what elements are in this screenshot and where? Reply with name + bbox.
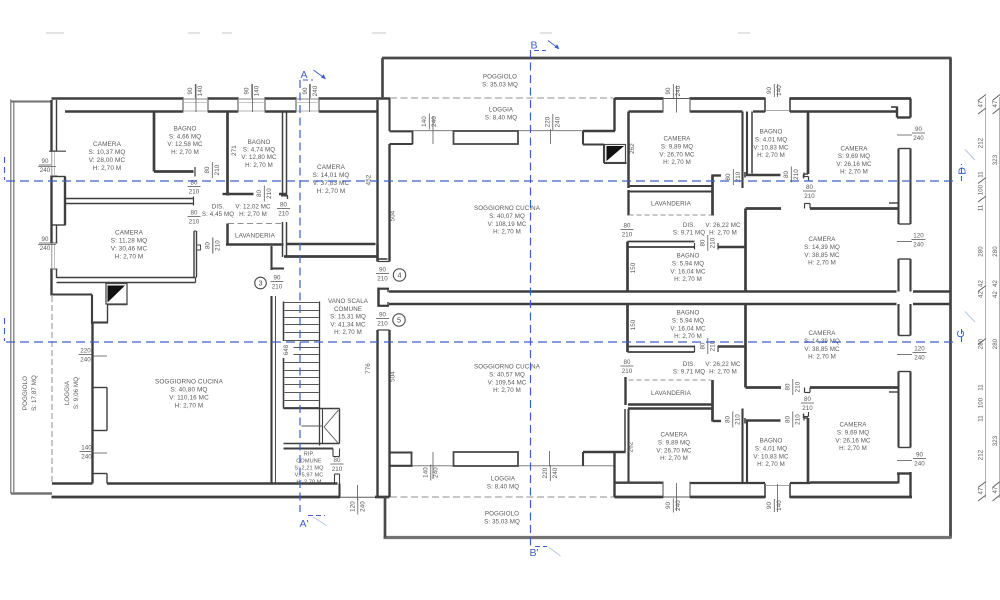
dimension chain lines [985, 97, 987, 498]
stair hall top wall [284, 255, 378, 258]
window bagno 4,01 top [764, 98, 766, 113]
right building west edge top [381, 58, 384, 99]
svg-text:CAMERA: CAMERA [93, 141, 122, 148]
bagno 4,01 bottom north wall [746, 419, 781, 422]
right building top wall [382, 57, 952, 60]
svg-text:V: 28,00 MC: V: 28,00 MC [89, 157, 126, 164]
camera 14,01 south wall [287, 243, 376, 246]
svg-text:V: 12,02 MC: V: 12,02 MC [235, 204, 271, 211]
svg-text:140: 140 [421, 116, 428, 127]
svg-text:BAGNO: BAGNO [248, 139, 271, 146]
svg-text:H: 2,70 M: H: 2,70 M [334, 329, 362, 336]
north inner wall [629, 110, 664, 112]
svg-text:LAVANDERIA: LAVANDERIA [235, 233, 276, 240]
bagno 5,94 bottom door caps [694, 346, 696, 353]
door 3 circle and dimension [255, 277, 267, 289]
camera 14,39 top west wall [744, 209, 747, 292]
svg-text:80: 80 [784, 416, 791, 424]
stair landing [284, 408, 340, 410]
svg-text:S: 40,57 MQ: S: 40,57 MQ [489, 371, 525, 378]
svg-text:CAMERA: CAMERA [808, 330, 836, 337]
west bay window soggiorno [93, 387, 108, 389]
svg-text:80: 80 [623, 359, 631, 366]
svg-text:140: 140 [776, 85, 783, 96]
svg-text:11: 11 [978, 384, 985, 391]
svg-text:262: 262 [628, 441, 635, 452]
svg-text:11: 11 [978, 171, 985, 178]
soggiorno west wall [91, 323, 93, 484]
svg-text:H: 2,70 M: H: 2,70 M [660, 455, 688, 462]
svg-text:90: 90 [41, 158, 49, 165]
svg-text:210: 210 [622, 368, 633, 375]
svg-text:V: 30,46 MC: V: 30,46 MC [111, 246, 148, 253]
right dimension ticks [978, 95, 986, 101]
svg-text:90: 90 [665, 87, 672, 95]
svg-text:V: 12,80 MC: V: 12,80 MC [241, 154, 277, 161]
svg-text:S: 9,69 MQ: S: 9,69 MQ [837, 429, 869, 436]
hall north wall bottom apartment [746, 386, 782, 389]
svg-text:120: 120 [914, 346, 925, 353]
camera 14,01 west wall [282, 112, 284, 196]
svg-text:BAGNO: BAGNO [677, 253, 700, 260]
svg-text:210: 210 [802, 405, 813, 412]
svg-text:S: 5,94 MQ: S: 5,94 MQ [672, 317, 704, 324]
svg-text:240: 240 [80, 357, 91, 364]
svg-text:H: 2,70 M: H: 2,70 M [663, 159, 691, 166]
svg-text:210: 210 [622, 232, 633, 239]
svg-text:V: 26,70 MC: V: 26,70 MC [656, 447, 692, 454]
svg-text:V: 26,22 MC: V: 26,22 MC [705, 361, 741, 368]
svg-text:V: 16,04 MC: V: 16,04 MC [670, 268, 706, 275]
svg-text:240: 240 [433, 467, 440, 478]
window W1 bagno 4,66 [182, 97, 184, 113]
left building west wall outer [50, 100, 52, 151]
stair dim 648 [283, 341, 294, 358]
svg-text:V: 10,83 MC: V: 10,83 MC [753, 144, 789, 151]
loggia bottom boundary [390, 451, 413, 453]
svg-text:42: 42 [992, 280, 999, 287]
svg-text:H: 2,70 M: H: 2,70 M [757, 152, 785, 159]
svg-text:H: 2,70 M: H: 2,70 M [115, 254, 144, 261]
svg-text:S: 15,31 MQ: S: 15,31 MQ [330, 314, 366, 321]
bagno 4,01 top door jamb [803, 173, 805, 177]
svg-text:S: 9,71 MQ: S: 9,71 MQ [673, 368, 705, 375]
svg-text:47: 47 [992, 100, 999, 107]
svg-text:H: 2,70 M: H: 2,70 M [808, 354, 836, 361]
svg-text:H: 2,70 M: H: 2,70 M [709, 229, 737, 236]
svg-text:140: 140 [776, 500, 783, 511]
right building mid wall [389, 290, 897, 292]
camera 9,89 bottom south wall [615, 482, 664, 484]
bagno 5,94 top walls [628, 241, 695, 243]
west door bump bottom [93, 473, 108, 475]
svg-text:210: 210 [278, 211, 289, 218]
svg-text:240: 240 [431, 116, 438, 127]
svg-text:240: 240 [40, 245, 51, 252]
svg-text:H: 2,70 M: H: 2,70 M [757, 461, 785, 468]
stairs [283, 302, 285, 409]
svg-text:H: 2,70 M: H: 2,70 M [808, 260, 836, 267]
svg-text:BAGNO: BAGNO [760, 129, 783, 136]
svg-text:V: 26,22 MC: V: 26,22 MC [705, 222, 741, 229]
bagno 4,66 south wall [154, 170, 194, 173]
poggiolo top dashed edge [390, 97, 613, 99]
svg-text:LOGGIA: LOGGIA [491, 476, 516, 483]
svg-text:210: 210 [377, 321, 388, 328]
svg-text:240: 240 [914, 355, 925, 362]
camera 9,89 top east wall [741, 112, 743, 189]
svg-text:80: 80 [783, 171, 790, 179]
wall corridor / camera 11,28 [193, 231, 195, 278]
right building bottom wall [384, 536, 952, 539]
svg-text:240: 240 [913, 242, 924, 249]
svg-text:LOGGIA: LOGGIA [64, 380, 71, 405]
svg-text:CAMERA: CAMERA [840, 146, 868, 153]
svg-text:240: 240 [360, 501, 367, 512]
svg-text:100: 100 [978, 184, 985, 195]
rip east wall [334, 474, 336, 484]
svg-text:90: 90 [665, 502, 672, 510]
svg-text:S: 2,21 MQ: S: 2,21 MQ [294, 466, 324, 472]
entry door box top-right apartment [605, 145, 626, 163]
section line D [6, 180, 956, 182]
svg-text:280: 280 [992, 338, 999, 349]
south outer wall right building [615, 496, 664, 499]
svg-text:240: 240 [914, 461, 925, 468]
svg-text:210: 210 [214, 164, 221, 175]
camera 9,89 top west wall [627, 112, 630, 189]
camera 9,69 bottom south inner wall [810, 481, 898, 483]
bagno 4,01 bottom door jamb [803, 417, 805, 421]
svg-text:648: 648 [284, 344, 290, 355]
svg-text:BAGNO: BAGNO [677, 310, 700, 317]
east window dim 90/240 top [897, 134, 912, 136]
left building south wall outer [52, 496, 341, 499]
svg-text:B': B' [529, 547, 538, 559]
svg-text:240: 240 [312, 85, 319, 96]
svg-text:A: A [300, 69, 307, 81]
svg-text:80: 80 [256, 190, 263, 198]
svg-text:POGGIOLO: POGGIOLO [483, 74, 517, 81]
svg-text:H: 2,70 M: H: 2,70 M [317, 188, 346, 195]
svg-text:90: 90 [187, 87, 194, 95]
svg-text:S: 17,87 MQ: S: 17,87 MQ [31, 375, 38, 411]
svg-text:H: 2,70 M: H: 2,70 M [175, 403, 204, 410]
svg-text:SOGGIORNO CUCINA: SOGGIORNO CUCINA [155, 379, 224, 386]
svg-text:240: 240 [675, 85, 682, 96]
svg-text:V: 110,16 MC: V: 110,16 MC [169, 395, 209, 402]
svg-text:210: 210 [215, 240, 222, 251]
left building top wall outer [52, 97, 184, 100]
camera 9,89 bottom east wall [741, 409, 743, 483]
svg-text:CAMERA: CAMERA [317, 164, 346, 171]
svg-text:240: 240 [675, 500, 682, 511]
lavanderia bottom-right box [629, 379, 712, 381]
svg-text:V: 10,83 MC: V: 10,83 MC [753, 453, 789, 460]
svg-text:42: 42 [978, 280, 985, 287]
svg-text:80: 80 [724, 416, 731, 424]
svg-text:RIP.: RIP. [304, 452, 315, 458]
faint top dimension marks [46, 32, 64, 34]
svg-text:S: 4,66 MQ: S: 4,66 MQ [169, 133, 201, 140]
left poggiolo bottom wall [11, 492, 52, 495]
svg-text:100: 100 [978, 397, 985, 408]
left poggiolo top wall [11, 101, 52, 103]
svg-text:V: 38,85 MC: V: 38,85 MC [804, 346, 840, 353]
svg-text:S: 4,45 MQ: S: 4,45 MQ [202, 211, 234, 218]
svg-text:S: 4,01 MQ: S: 4,01 MQ [755, 445, 787, 452]
svg-text:323: 323 [992, 435, 999, 446]
svg-text:80: 80 [806, 184, 814, 191]
svg-text:240: 240 [913, 135, 924, 142]
svg-text:V: 12,58 MC: V: 12,58 MC [167, 141, 203, 148]
stair hall west wall lower [270, 296, 272, 484]
svg-text:120: 120 [913, 233, 924, 240]
svg-text:140: 140 [197, 85, 204, 96]
svg-text:80: 80 [784, 383, 791, 391]
svg-text:210: 210 [793, 169, 800, 180]
svg-text:80: 80 [699, 342, 706, 350]
svg-text:776: 776 [365, 363, 372, 374]
svg-text:LOGGIA: LOGGIA [489, 107, 514, 114]
south-east notch [909, 472, 911, 497]
north-east notch [909, 99, 911, 118]
svg-text:210: 210 [189, 189, 200, 196]
svg-text:90: 90 [302, 87, 309, 95]
camera 9,89 bottom west wall [624, 409, 626, 452]
camera 9,69 bottom west wall [807, 418, 810, 484]
entry door box left apartment [106, 284, 127, 305]
svg-text:LAVANDERIA: LAVANDERIA [651, 201, 692, 208]
svg-text:S: 5,94 MQ: S: 5,94 MQ [672, 260, 704, 267]
right building east wall [949, 58, 952, 538]
svg-text:210: 210 [266, 188, 273, 199]
svg-text:271: 271 [231, 145, 238, 156]
svg-text:80: 80 [804, 396, 812, 403]
door camera 9,89 bottom [662, 482, 664, 499]
bagno 4,01 top west wall [746, 112, 748, 177]
svg-text:210: 210 [189, 219, 200, 226]
bagno 4,01 top south wall [746, 174, 781, 177]
svg-text:11: 11 [978, 204, 985, 211]
svg-text:240: 240 [81, 454, 92, 461]
svg-text:H: 2,70 M: H: 2,70 M [674, 333, 702, 340]
svg-text:3: 3 [258, 279, 262, 288]
svg-text:280: 280 [992, 246, 999, 257]
svg-text:DIS.: DIS. [683, 222, 696, 229]
svg-text:262: 262 [629, 143, 636, 154]
door camera 9,89 top [662, 97, 664, 113]
camera 9,89 top south wall / lavanderia top [629, 185, 714, 187]
svg-text:240: 240 [555, 116, 562, 127]
svg-text:DIS.: DIS. [683, 361, 696, 368]
svg-text:S: 4,74 MQ: S: 4,74 MQ [243, 147, 275, 154]
svg-text:210: 210 [795, 414, 802, 425]
svg-text:90: 90 [379, 312, 387, 319]
svg-text:CAMERA: CAMERA [839, 422, 867, 429]
svg-text:CAMERA: CAMERA [115, 230, 144, 237]
svg-text:90: 90 [41, 236, 49, 243]
svg-text:210: 210 [332, 466, 343, 473]
window W3 camera 14,01 [295, 97, 297, 113]
svg-text:CAMERA: CAMERA [808, 236, 836, 243]
svg-text:V: 108,19 MC: V: 108,19 MC [488, 221, 527, 228]
svg-text:LAVANDERIA: LAVANDERIA [651, 390, 692, 397]
svg-text:90: 90 [916, 452, 924, 459]
portal between doors 4 and 5 [377, 288, 380, 307]
svg-text:BAGNO: BAGNO [760, 438, 783, 445]
svg-text:H: 2,70 M: H: 2,70 M [493, 229, 521, 236]
section line C [6, 341, 956, 343]
entry alcove top-right apartment [613, 98, 615, 131]
east window dim 120/240 bottom [897, 354, 912, 356]
svg-text:212: 212 [978, 137, 985, 148]
right apartments north wall [615, 97, 664, 100]
section line A [299, 80, 301, 512]
svg-text:CAMERA: CAMERA [663, 136, 691, 143]
rip comune top wall [284, 447, 334, 449]
svg-text:V: 41,34 MC: V: 41,34 MC [330, 321, 366, 328]
svg-text:H: 2,70 M: H: 2,70 M [171, 149, 199, 156]
svg-text:V: 5,97 MC: V: 5,97 MC [295, 473, 324, 479]
right building west edge bottom [384, 497, 387, 538]
svg-text:S: 8,40 MQ: S: 8,40 MQ [487, 484, 519, 491]
svg-text:5: 5 [397, 316, 401, 325]
svg-text:S: 9,89 MQ: S: 9,89 MQ [661, 143, 693, 150]
svg-text:POGGIOLO: POGGIOLO [22, 376, 29, 410]
east window dim 120/240 top [897, 241, 912, 243]
svg-text:47: 47 [978, 100, 985, 107]
svg-text:S: 9,71 MQ: S: 9,71 MQ [673, 229, 705, 236]
svg-text:B: B [530, 40, 537, 52]
left building south wall inner [52, 482, 93, 484]
svg-text:V: 26,16 MC: V: 26,16 MC [835, 437, 871, 444]
svg-text:S: 8,40 MQ: S: 8,40 MQ [485, 115, 517, 122]
wall bagno 4,66 / bagno 4,74 [226, 112, 229, 196]
svg-text:S: 40,07 MQ: S: 40,07 MQ [489, 213, 525, 220]
buildings separation wall west leaf [376, 100, 378, 262]
svg-text:COMUNE: COMUNE [334, 306, 362, 313]
svg-text:210: 210 [272, 284, 283, 291]
left loggia open edge dashed [51, 296, 53, 483]
hall south wall top apartment [746, 207, 782, 210]
camera 10,37 south wall [66, 198, 194, 200]
svg-text:VANO SCALA: VANO SCALA [328, 298, 369, 305]
section line B [530, 50, 532, 546]
buildings separation wall east leaf [388, 99, 390, 132]
svg-text:210: 210 [804, 193, 815, 200]
svg-text:80: 80 [204, 242, 211, 250]
camera 11,28 south wall [57, 277, 196, 279]
bagno 4,01 bottom west wall [746, 421, 748, 483]
poggiolo bottom dashed edge [390, 496, 613, 498]
svg-text:220: 220 [542, 467, 549, 478]
svg-text:POGGIOLO: POGGIOLO [485, 511, 519, 518]
entrance alcove west [52, 293, 92, 295]
svg-text:120: 120 [349, 501, 356, 512]
svg-text:210: 210 [795, 381, 802, 392]
svg-text:212: 212 [978, 449, 985, 460]
svg-text:S: 40,80 MQ: S: 40,80 MQ [171, 387, 208, 394]
svg-text:90: 90 [273, 275, 281, 282]
svg-text:4: 4 [397, 271, 401, 280]
svg-text:210: 210 [710, 237, 717, 248]
svg-text:90: 90 [766, 502, 773, 510]
svg-text:90: 90 [766, 87, 773, 95]
svg-text:140: 140 [422, 467, 429, 478]
svg-text:80: 80 [280, 202, 288, 209]
svg-text:S: 10,37 MQ: S: 10,37 MQ [89, 149, 126, 156]
loggia top window rect [454, 131, 519, 144]
svg-text:V: 26,16 MC: V: 26,16 MC [836, 161, 872, 168]
svg-text:80: 80 [190, 210, 198, 217]
east window dim 90/240 bottom [897, 460, 912, 462]
svg-text:V: 16,04 MC: V: 16,04 MC [670, 325, 706, 332]
left building west wall inner [56, 100, 58, 151]
svg-text:150: 150 [630, 319, 637, 330]
svg-text:S: 9,69 MQ: S: 9,69 MQ [838, 153, 870, 160]
window bagno 4,01 bottom [764, 484, 766, 499]
window W2 bagno 4,74 [237, 97, 239, 113]
wall camera 10,37 / bagno 4,66 [153, 112, 156, 172]
lavanderia left box [228, 223, 281, 225]
left building top wall inner [65, 110, 183, 112]
svg-text:H: 2,70 M: H: 2,70 M [840, 169, 868, 176]
svg-text:V: 26,70 MC: V: 26,70 MC [659, 151, 695, 158]
svg-text:220: 220 [544, 116, 551, 127]
svg-text:90: 90 [379, 267, 387, 274]
svg-text:H: 2,70 M: H: 2,70 M [839, 445, 867, 452]
svg-text:DIS.: DIS. [212, 204, 225, 211]
left west window W4 [50, 150, 58, 152]
bagno 5,94 bottom walls [628, 346, 695, 348]
svg-text:210: 210 [377, 276, 388, 283]
svg-text:H: 2,70 M: H: 2,70 M [709, 368, 737, 375]
svg-text:240: 240 [40, 167, 51, 174]
svg-text:H: 2,70 M: H: 2,70 M [493, 387, 521, 394]
svg-text:H: 2,70 M: H: 2,70 M [674, 276, 702, 283]
svg-text:A': A' [299, 518, 308, 530]
svg-text:S: 11,28 MQ: S: 11,28 MQ [111, 238, 148, 245]
svg-text:V: 109,54 MC: V: 109,54 MC [488, 379, 527, 386]
svg-text:140: 140 [81, 445, 92, 452]
svg-text:H: 2,70 M: H: 2,70 M [239, 211, 267, 218]
bagno 5,94 top door caps [694, 243, 696, 250]
svg-text:80: 80 [725, 173, 732, 181]
svg-text:H: 2,70 M: H: 2,70 M [93, 165, 122, 172]
loggia top south boundary [390, 130, 413, 132]
svg-text:S: 14,01 MQ: S: 14,01 MQ [313, 172, 350, 179]
svg-text:90: 90 [243, 87, 250, 95]
entry threshold line [340, 496, 375, 498]
svg-text:323: 323 [992, 154, 999, 165]
svg-text:150: 150 [630, 262, 637, 273]
svg-text:S: 35,03 MQ: S: 35,03 MQ [482, 82, 518, 89]
svg-text:D: D [957, 167, 969, 175]
svg-text:220: 220 [80, 348, 91, 355]
svg-text:80: 80 [623, 223, 631, 230]
svg-text:210: 210 [735, 414, 742, 425]
bagno 4,74 south wall [228, 193, 254, 196]
svg-text:H: 2,70 M: H: 2,70 M [245, 162, 273, 169]
svg-text:42: 42 [992, 291, 999, 298]
svg-text:S: 9,06 MQ: S: 9,06 MQ [73, 377, 80, 409]
svg-text:80: 80 [204, 166, 211, 174]
svg-text:140: 140 [254, 85, 261, 96]
svg-text:BAGNO: BAGNO [174, 126, 197, 133]
svg-text:80: 80 [699, 239, 706, 247]
svg-text:47: 47 [978, 487, 985, 494]
